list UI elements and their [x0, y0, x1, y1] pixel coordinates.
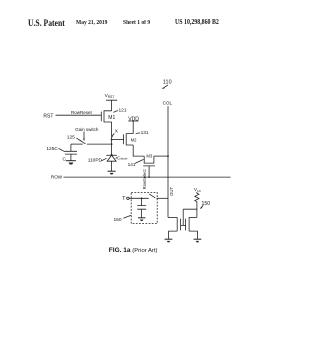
- wire mirror left source: [169, 231, 178, 239]
- svg-text:T: T: [122, 196, 126, 202]
- label Gain switch arrow: [83, 132, 85, 142]
- capacitor (box 160) lead: [141, 198, 143, 205]
- node junction dot (gain switch branch): [111, 143, 113, 145]
- svg-text:160: 160: [114, 217, 122, 223]
- transistor mirror left: [177, 217, 180, 231]
- switch 125 arm: [79, 140, 85, 144]
- wire mirror right drain stub: [189, 216, 197, 218]
- node X junction dot (gate lead): [111, 139, 113, 141]
- header: date: [76, 20, 107, 26]
- header: sheet: [123, 20, 150, 26]
- leader 160: [123, 215, 131, 218]
- ground (capacitor C): [66, 161, 76, 165]
- photodiode 110PD junction dot: [111, 154, 113, 156]
- leader 131: [136, 132, 141, 135]
- label 110 arrow: [162, 85, 168, 89]
- transistor M1: [101, 111, 111, 122]
- junction dot M3-COL: [167, 155, 169, 157]
- svg-text:RST: RST: [43, 114, 53, 120]
- header: U.S. Patent: [28, 18, 65, 28]
- svg-text:125: 125: [67, 135, 75, 141]
- transistor M2: [124, 134, 134, 145]
- svg-text:VRST: VRST: [105, 93, 115, 99]
- svg-text:Cdiode: Cdiode: [117, 155, 128, 160]
- capacitor (box 160) plates: [137, 206, 146, 218]
- svg-text:FIG. 1a (Prior Art): FIG. 1a (Prior Art): [109, 247, 158, 254]
- wire ROW bus: [64, 176, 231, 178]
- ground (photodiode): [108, 171, 116, 174]
- svg-text:VDD: VDD: [128, 116, 139, 122]
- wire T to junction: [129, 197, 149, 199]
- wire M3 drain to COL: [154, 155, 168, 157]
- power terminal V_RST bar: [106, 100, 117, 111]
- ground (box 160 capacitor): [138, 218, 145, 221]
- wire M3 gate to ROW: [148, 166, 150, 177]
- svg-text:RowReset: RowReset: [71, 110, 93, 115]
- transistor M3: [143, 156, 155, 166]
- junction dot gate-ROW: [148, 176, 150, 178]
- resistor 150: [195, 192, 199, 209]
- ground (mirror left): [165, 239, 173, 242]
- wire mirror right source: [189, 231, 197, 239]
- wire RST gate lead: [56, 114, 102, 116]
- svg-text:Gain switch: Gain switch: [75, 127, 99, 132]
- wire M2 source to M3: [133, 145, 144, 156]
- svg-text:COL: COL: [163, 101, 173, 106]
- svg-text:M3: M3: [146, 153, 152, 158]
- leader X: [112, 134, 115, 138]
- header: patent number: [175, 18, 219, 26]
- junction dot T node: [141, 197, 143, 199]
- ground (mirror right): [194, 239, 202, 242]
- wire gain switch branch right segment: [87, 143, 112, 145]
- svg-text:RowSelect: RowSelect: [142, 168, 147, 189]
- svg-text:141: 141: [128, 162, 136, 168]
- svg-text:M2: M2: [131, 137, 137, 142]
- leader 125: [76, 138, 81, 141]
- wire switch to COL: [157, 197, 169, 199]
- power VDD underline and stem: [128, 121, 139, 134]
- dashed box 160: [131, 192, 157, 223]
- svg-text:110PD: 110PD: [88, 158, 103, 164]
- capacitor C plates: [65, 151, 77, 160]
- svg-text:VLD: VLD: [194, 187, 202, 193]
- svg-text:X: X: [115, 129, 119, 135]
- svg-text:125C: 125C: [46, 146, 58, 152]
- wire gain switch branch left segment: [71, 143, 83, 145]
- transistor mirror right: [186, 217, 190, 231]
- wire V_LD node to diode connection: [183, 209, 197, 217]
- wire M1 source to node X column: [111, 122, 113, 155]
- wire diode connection: [182, 209, 184, 225]
- leader 150 arrow: [200, 205, 204, 209]
- leader 141: [135, 159, 144, 163]
- svg-text:M1: M1: [108, 115, 115, 121]
- wire node X to M2 gate: [112, 139, 124, 141]
- photodiode 110PD symbol: [106, 155, 117, 171]
- switch arm (box 160): [149, 194, 155, 198]
- svg-text:150: 150: [202, 201, 211, 207]
- leader 110PD: [101, 158, 106, 161]
- leader Cdiode mark: [116, 157, 117, 160]
- leader 125C: [59, 148, 65, 151]
- leader 121: [113, 111, 118, 113]
- terminal T circle: [127, 197, 129, 199]
- svg-text:OUT: OUT: [169, 186, 174, 195]
- wire gate connect: [181, 224, 186, 226]
- svg-text:110: 110: [163, 80, 172, 86]
- svg-text:ROW: ROW: [51, 175, 63, 180]
- capacitor C lead: [70, 144, 72, 151]
- svg-text:121: 121: [119, 107, 127, 113]
- wire COL column line: [167, 106, 169, 217]
- svg-text:131: 131: [141, 130, 149, 136]
- wire COL to mirror left drain: [168, 216, 177, 218]
